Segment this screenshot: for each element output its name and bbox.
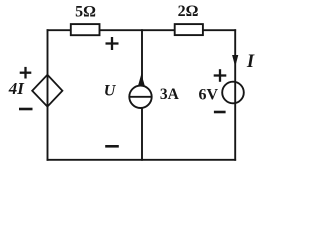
svg-text:3A: 3A xyxy=(160,86,180,103)
svg-text:6V: 6V xyxy=(199,86,219,103)
polarity minus of 4I xyxy=(19,108,33,111)
wire left vertical xyxy=(47,29,49,160)
current source I1 arrowhead up xyxy=(138,74,145,86)
resistor R2 2Ω box xyxy=(175,24,203,35)
polarity plus of U xyxy=(106,37,119,50)
polarity minus of U xyxy=(105,145,119,148)
svg-text:I: I xyxy=(246,52,255,72)
wire top horizontal xyxy=(47,29,237,31)
wire middle vertical xyxy=(141,29,143,160)
wire bottom horizontal xyxy=(47,159,237,161)
current I arrowhead down xyxy=(232,55,238,67)
current source I1 horizontal bar xyxy=(129,96,151,98)
resistor R1 5Ω box xyxy=(71,24,100,35)
svg-text:2Ω: 2Ω xyxy=(178,3,199,20)
wire right vertical xyxy=(234,29,236,160)
polarity plus of 6V xyxy=(214,69,227,82)
svg-text:U: U xyxy=(104,83,117,100)
current source I1 3A circle xyxy=(129,86,151,108)
dependent source U1 diamond 4I xyxy=(32,75,62,107)
voltage source V1 6V circle xyxy=(222,82,244,104)
polarity minus of 6V xyxy=(214,111,226,114)
svg-text:4I: 4I xyxy=(8,79,26,98)
polarity plus of 4I xyxy=(20,67,32,79)
svg-text:5Ω: 5Ω xyxy=(75,3,96,20)
